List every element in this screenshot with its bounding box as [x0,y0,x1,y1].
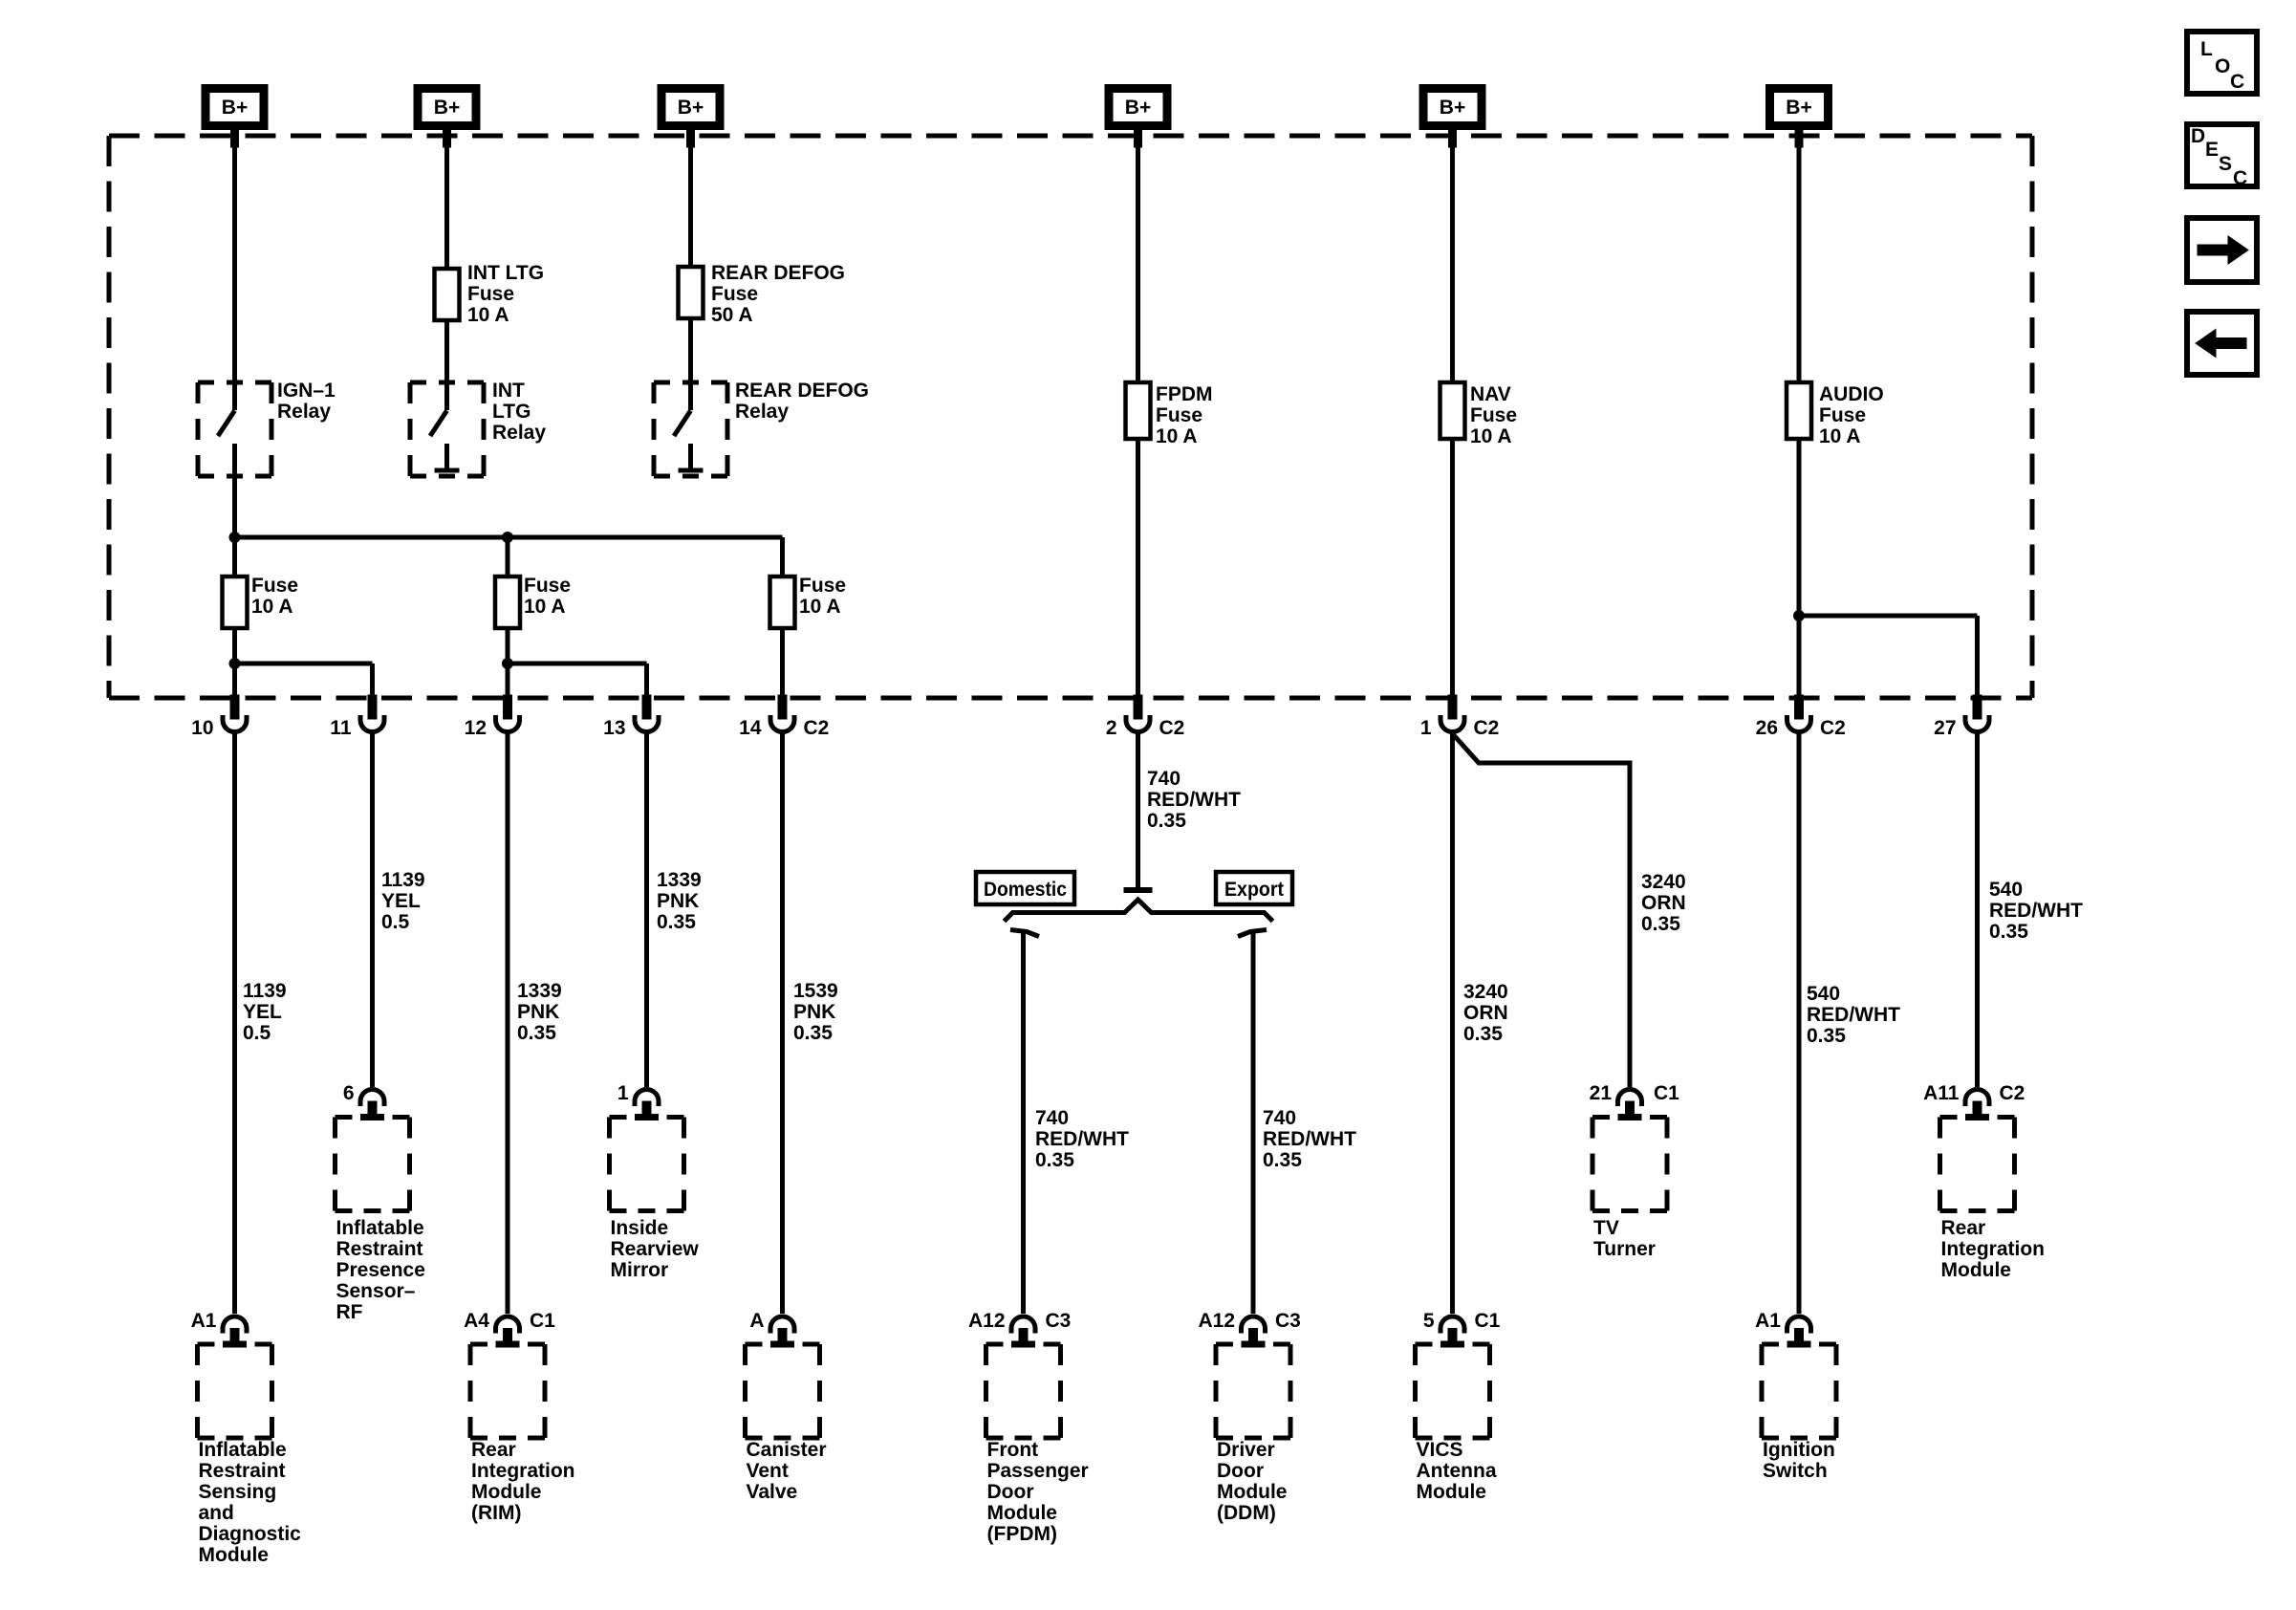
svg-text:YEL: YEL [243,1001,282,1023]
module Rear Integration Module (RIM) box [470,1344,545,1438]
connector pin 6 [343,1082,384,1120]
svg-text:10 A: 10 A [467,304,509,326]
option box Export [1216,872,1292,904]
svg-text:C3: C3 [1046,1310,1072,1332]
relay INT LTG box [410,382,484,476]
fuse F1 10A [223,537,248,664]
wire B+2 to INT LTG fuse [444,130,449,269]
label Ignition Switch [1763,1439,1835,1482]
svg-text:Diagnostic: Diagnostic [199,1523,302,1545]
svg-text:Ignition: Ignition [1763,1439,1835,1461]
svg-text:Passenger: Passenger [987,1460,1089,1482]
svg-text:0.35: 0.35 [1641,913,1680,935]
svg-text:and: and [199,1502,234,1524]
svg-text:0.5: 0.5 [381,911,410,933]
label 1139 YEL 0.5 col B [381,869,425,933]
svg-text:Sensing: Sensing [199,1481,277,1503]
svg-text:RED/WHT: RED/WHT [1035,1128,1129,1150]
svg-text:Module: Module [1941,1259,2012,1281]
svg-text:Fuse: Fuse [524,575,571,597]
wire B+1 to IGN-1 relay [232,130,237,410]
svg-text:Turner: Turner [1593,1238,1656,1260]
svg-text:Fuse: Fuse [799,575,846,597]
connector pin 11 [330,695,384,739]
svg-text:C2: C2 [2000,1082,2025,1104]
label VICS Antenna Module [1417,1439,1497,1503]
svg-text:C2: C2 [804,717,830,739]
svg-text:Restraint: Restraint [199,1460,286,1482]
svg-text:Restraint: Restraint [336,1238,423,1260]
label REAR DEFOG Relay [735,380,869,423]
svg-text:Rearview: Rearview [611,1238,700,1260]
connector pin 10 [191,695,247,739]
connector pin A4 C1 (Rear Integration Module (RIM)) [464,1310,555,1347]
svg-text:O: O [2215,55,2230,77]
svg-text:1539: 1539 [793,980,838,1002]
label 3240 ORN 0.35 main [1463,981,1508,1045]
fuse REAR DEFOG 50A [679,267,704,318]
label 1339 PNK 0.35 col D [517,980,562,1044]
B+ power feed 6 [1770,89,1829,148]
label 540 RED/WHT 0.35 col N [1989,879,2083,943]
fuse F3 10A [770,577,795,695]
connector pin A1 (Inflatable Restraint Sensing and Diagnostic Module) [191,1310,247,1347]
label 1139 YEL 0.5 col A [243,980,287,1044]
svg-text:Antenna: Antenna [1417,1460,1497,1482]
svg-text:Driver: Driver [1217,1439,1275,1461]
label fuse F3 [799,575,846,618]
connector pin A12 C3 (Driver Door Module (DDM)) [1198,1310,1300,1347]
label Driver Door Module (DDM) [1217,1439,1288,1524]
svg-text:Fuse: Fuse [467,283,514,305]
svg-text:INT: INT [492,380,525,402]
svg-text:Presence: Presence [336,1259,425,1281]
svg-text:TV: TV [1593,1217,1619,1239]
svg-text:0.35: 0.35 [793,1022,833,1044]
wire fuse2 split [508,664,647,695]
svg-text:Relay: Relay [277,401,331,423]
svg-text:B+: B+ [1125,97,1151,119]
svg-text:C2: C2 [1820,717,1846,739]
svg-text:10 A: 10 A [799,596,841,618]
svg-text:S: S [2219,153,2232,175]
svg-text:21: 21 [1590,1082,1613,1104]
svg-text:C: C [2233,167,2247,189]
connector pin 27 [1934,695,1989,739]
svg-text:AUDIO: AUDIO [1819,383,1884,405]
wire FPDM fuse to connector 2 [1136,439,1140,695]
svg-text:1: 1 [1420,717,1432,739]
svg-text:5: 5 [1423,1310,1435,1332]
svg-text:27: 27 [1934,717,1956,739]
svg-text:B+: B+ [1440,97,1465,119]
relay REAR DEFOG box [654,382,727,476]
svg-text:B+: B+ [1786,97,1811,119]
wire AUDIO fuse down [1797,439,1802,695]
B+ power feed 5 [1423,89,1482,148]
svg-text:Door: Door [1217,1460,1264,1482]
legend box back arrow [2187,312,2257,375]
label Front Passenger Door Module (FPDM) [987,1439,1089,1545]
svg-text:Fuse: Fuse [251,575,298,597]
label Inflatable Restraint Sensing and Diagnostic Module [199,1439,302,1566]
node bus junction D [503,533,513,543]
option brace [1005,900,1273,922]
svg-text:Module: Module [471,1481,542,1503]
module Inside Rearview Mirror box [610,1118,684,1211]
node sub junction D [503,659,513,669]
module VICS Antenna Module box [1416,1344,1490,1438]
svg-text:(DDM): (DDM) [1217,1502,1276,1524]
wire B+5 to NAV fuse [1450,130,1455,382]
relay INT LTG contacts [430,382,460,470]
svg-text:FPDM: FPDM [1156,383,1213,405]
svg-text:RED/WHT: RED/WHT [1807,1004,1900,1026]
label 1539 PNK 0.35 col G [793,980,838,1044]
connector pin 5 C1 (VICS Antenna Module) [1423,1310,1501,1347]
wire 540 RED/WHT col M [1797,733,1802,1314]
label AUDIO fuse [1819,383,1884,447]
svg-text:Relay: Relay [735,401,789,423]
wire fuse feed bus [235,537,783,577]
svg-text:PNK: PNK [793,1001,835,1023]
svg-text:10 A: 10 A [1156,425,1198,447]
svg-text:Integration: Integration [471,1460,575,1482]
svg-text:REAR DEFOG: REAR DEFOG [735,380,869,402]
svg-text:540: 540 [1989,879,2023,901]
svg-text:Rear: Rear [1941,1217,1986,1239]
svg-text:A4: A4 [464,1310,489,1332]
label TV Turner [1593,1217,1656,1260]
label FPDM fuse [1156,383,1213,447]
svg-text:C: C [2230,71,2244,93]
svg-text:0.35: 0.35 [657,911,696,933]
relay REAR DEFOG contacts [674,382,704,470]
svg-text:D: D [2191,125,2205,147]
svg-text:LTG: LTG [492,401,531,423]
module Ignition Switch box [1762,1344,1836,1438]
svg-text:A12: A12 [968,1310,1006,1332]
svg-text:Fuse: Fuse [711,283,758,305]
svg-text:0.35: 0.35 [517,1022,556,1044]
legend box DESC [2187,124,2257,189]
wire 1339 PNK col D [506,733,510,1314]
label 740 RED/WHT 0.35 Domestic [1035,1107,1129,1171]
svg-text:1139: 1139 [243,980,287,1002]
svg-text:C3: C3 [1275,1310,1301,1332]
svg-text:12: 12 [465,717,487,739]
svg-text:INT LTG: INT LTG [467,262,544,284]
fuse FPDM 10A [1126,382,1151,439]
svg-text:Valve: Valve [747,1481,798,1503]
legend box forward arrow [2187,218,2257,282]
svg-text:Sensor–: Sensor– [336,1280,416,1302]
label 540 RED/WHT 0.35 col M [1807,983,1900,1047]
node bus junction A [229,533,240,543]
svg-text:RED/WHT: RED/WHT [1147,789,1241,811]
option box Domestic [976,872,1074,904]
connector pin A (Canister Vent Valve) [749,1310,794,1347]
svg-text:RED/WHT: RED/WHT [1263,1128,1356,1150]
svg-text:0.35: 0.35 [1147,810,1186,832]
svg-text:Module: Module [987,1502,1058,1524]
B+ power feed 1 [206,89,264,148]
svg-text:Module: Module [1417,1481,1487,1503]
connector pin 14 C2 [739,695,829,739]
svg-text:Export: Export [1224,879,1284,901]
wire fuse1 down [232,664,237,695]
connector pin 1 C2 [1420,695,1500,739]
svg-text:PNK: PNK [517,1001,559,1023]
svg-text:A12: A12 [1198,1310,1235,1332]
label Canister Vent Valve [747,1439,827,1503]
svg-text:10 A: 10 A [1470,425,1512,447]
svg-text:1339: 1339 [657,869,702,891]
node audio branch junction [1794,611,1805,621]
svg-text:10 A: 10 A [524,596,566,618]
wire IGN-1 relay to fuse bus [232,444,237,537]
fuse INT LTG 10A [435,269,460,320]
svg-text:740: 740 [1147,768,1180,790]
svg-text:Inflatable: Inflatable [336,1217,424,1239]
module Front Passenger Door Module (FPDM) box [986,1344,1061,1438]
svg-text:B+: B+ [434,97,460,119]
node sub junction A [229,659,240,669]
label REAR DEFOG fuse [711,262,845,326]
module Rear Integration Module right box [1940,1118,2015,1211]
B+ power feed 4 [1109,89,1167,148]
svg-text:ORN: ORN [1463,1002,1508,1024]
label INT LTG fuse [467,262,544,326]
label 740 RED/WHT 0.35 trunk [1147,768,1241,832]
svg-text:C1: C1 [530,1310,555,1332]
svg-text:Module: Module [1217,1481,1288,1503]
label fuse F2 [524,575,571,618]
svg-text:RED/WHT: RED/WHT [1989,900,2083,922]
wire INT LTG fuse to relay [444,320,449,410]
svg-text:11: 11 [330,717,352,739]
svg-text:50 A: 50 A [711,304,753,326]
wire 3240 ORN branch to TV tuner [1453,734,1630,1087]
label Inflatable Restraint Presence Sensor-RF [336,1217,425,1323]
svg-text:A11: A11 [1923,1082,1960,1104]
module TV Turner box [1592,1118,1667,1211]
fuse NAV 10A [1440,382,1465,439]
svg-text:1139: 1139 [381,869,425,891]
relay IGN-1 contacts [218,382,235,478]
svg-text:0.35: 0.35 [1263,1149,1302,1171]
wire Export 740 RED/WHT [1238,930,1267,1315]
B+ power feed 3 [661,89,720,148]
svg-text:REAR DEFOG: REAR DEFOG [711,262,845,284]
fuse AUDIO 10A [1787,382,1811,439]
svg-text:6: 6 [343,1082,355,1104]
wire B+3 to REAR DEFOG fuse [688,130,693,267]
module Inflatable Restraint Sensing and Diagnostic Module box [198,1344,272,1438]
svg-text:C1: C1 [1475,1310,1501,1332]
label fuse F1 [251,575,298,618]
svg-text:VICS: VICS [1417,1439,1463,1461]
svg-text:Front: Front [987,1439,1039,1461]
svg-text:(RIM): (RIM) [471,1502,521,1524]
svg-text:PNK: PNK [657,890,699,912]
wire 1539 PNK col G [780,733,785,1314]
svg-text:14: 14 [739,717,762,739]
fuse F2 10A [495,577,520,664]
wire 740 RED/WHT trunk [1136,733,1140,890]
svg-text:Fuse: Fuse [1819,404,1866,426]
svg-text:3240: 3240 [1463,981,1508,1003]
svg-text:B+: B+ [678,97,704,119]
splice end bar [1124,887,1153,893]
svg-text:0.35: 0.35 [1807,1025,1846,1047]
connector pin A12 C3 (Front Passenger Door Module (FPDM)) [968,1310,1071,1347]
connector pin 26 C2 [1756,695,1846,739]
connector pin A11 C2 [1923,1082,2025,1120]
wire 1339 PNK col E [644,733,649,1087]
svg-text:Relay: Relay [492,422,546,444]
svg-text:740: 740 [1035,1107,1069,1129]
wire NAV fuse to connector 1 [1450,439,1455,695]
svg-text:Inside: Inside [611,1217,669,1239]
connector pin 13 [603,695,659,739]
svg-text:Door: Door [987,1481,1034,1503]
svg-text:3240: 3240 [1641,871,1686,893]
svg-text:10 A: 10 A [1819,425,1861,447]
svg-text:Switch: Switch [1763,1460,1828,1482]
svg-text:Integration: Integration [1941,1238,2046,1260]
wire bus tap to fuse 2 [506,537,510,577]
svg-text:13: 13 [603,717,625,739]
label INT LTG Relay [492,380,546,444]
svg-text:10: 10 [191,717,213,739]
svg-text:Vent: Vent [747,1460,789,1482]
svg-text:1: 1 [617,1082,629,1104]
svg-text:C2: C2 [1474,717,1500,739]
svg-text:YEL: YEL [381,890,421,912]
svg-text:L: L [2200,38,2213,60]
label 1339 PNK 0.35 col E [657,869,702,933]
svg-text:A: A [749,1310,764,1332]
svg-text:Mirror: Mirror [611,1259,669,1281]
wire B+4 to FPDM fuse [1136,130,1140,382]
svg-text:C1: C1 [1654,1082,1679,1104]
svg-text:740: 740 [1263,1107,1296,1129]
wire 1139 YEL col B [370,733,375,1087]
svg-text:NAV: NAV [1470,383,1511,405]
label 3240 ORN 0.35 branch [1641,871,1686,935]
svg-text:Fuse: Fuse [1156,404,1202,426]
connector pin 2 C2 [1106,695,1185,739]
wire B+6 to AUDIO fuse [1797,130,1802,382]
svg-text:ORN: ORN [1641,892,1686,914]
module Inflatable Restraint Presence Sensor-RF box [336,1118,410,1211]
B+ power feed 2 [418,89,476,148]
svg-text:540: 540 [1807,983,1840,1005]
wire Domestic 740 RED/WHT [1010,930,1039,1315]
svg-text:(FPDM): (FPDM) [987,1523,1057,1545]
svg-text:0.35: 0.35 [1463,1023,1503,1045]
svg-text:A1: A1 [191,1310,217,1332]
label 740 RED/WHT 0.35 Export [1263,1107,1356,1171]
svg-text:10 A: 10 A [251,596,293,618]
label IGN-1 Relay [277,380,336,423]
wire 1139 YEL col A [232,733,237,1314]
connector pin 21 C1 [1590,1082,1680,1120]
svg-text:Inflatable: Inflatable [199,1439,287,1461]
wire audio branch to pin 27 [1799,616,1978,695]
connector pin 1 [617,1082,659,1120]
svg-text:1339: 1339 [517,980,562,1002]
module Driver Door Module (DDM) box [1216,1344,1290,1438]
svg-text:Canister: Canister [747,1439,827,1461]
svg-text:26: 26 [1756,717,1778,739]
wire REAR DEFOG fuse to relay [688,318,693,410]
wire 3240 ORN main [1450,733,1455,1314]
svg-text:A1: A1 [1755,1310,1781,1332]
svg-text:Module: Module [199,1544,270,1566]
label Inside Rearview Mirror [611,1217,700,1281]
svg-text:2: 2 [1106,717,1117,739]
wire fuse2 down [506,664,510,695]
underhood electrical center dashed box [109,136,2032,698]
svg-text:B+: B+ [222,97,248,119]
connector pin A1 (Ignition Switch) [1755,1310,1810,1347]
label Rear Integration Module right [1941,1217,2046,1281]
label Rear Integration Module (RIM) [471,1439,575,1524]
svg-text:Rear: Rear [471,1439,516,1461]
wire 540 RED/WHT col N [1975,733,1980,1087]
svg-text:E: E [2205,139,2219,161]
module Canister Vent Valve box [746,1344,820,1438]
svg-text:Fuse: Fuse [1470,404,1517,426]
relay IGN-1 box [198,382,271,476]
svg-text:0.35: 0.35 [1989,921,2028,943]
svg-text:IGN–1: IGN–1 [277,380,336,402]
label NAV fuse [1470,383,1517,447]
svg-text:RF: RF [336,1301,363,1323]
svg-text:0.5: 0.5 [243,1022,271,1044]
connector pin 12 [465,695,520,739]
svg-text:Domestic: Domestic [984,879,1067,901]
svg-text:0.35: 0.35 [1035,1149,1074,1171]
legend box LOC [2187,32,2257,94]
wire fuse1 split [235,664,373,695]
svg-text:C2: C2 [1159,717,1185,739]
